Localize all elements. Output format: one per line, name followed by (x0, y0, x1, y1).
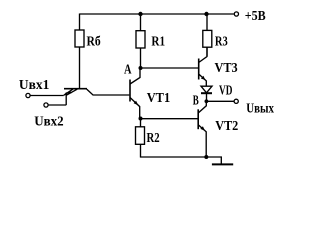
transistor VT0 multi-emitter input (64, 89, 130, 105)
node A (139, 66, 143, 70)
svg-text:R3: R3 (215, 35, 228, 50)
svg-text:VT1: VT1 (147, 91, 171, 106)
wire to VT2 base (141, 118, 198, 120)
terminal +5V (234, 12, 238, 16)
input terminal Uвх2 (44, 103, 48, 107)
wire input2 to emitter (48, 104, 66, 106)
wire node A to VT3 base (141, 67, 199, 69)
svg-text:Uвых: Uвых (246, 102, 274, 117)
svg-text:Uвх2: Uвх2 (34, 114, 63, 129)
resistor Rб (75, 14, 84, 90)
svg-text:+5В: +5В (245, 9, 266, 24)
svg-text:VT3: VT3 (215, 61, 238, 76)
node VT1 emitter / VT2 base / R2 (139, 117, 143, 121)
svg-text:R2: R2 (147, 131, 160, 146)
wire input1 to emitter (30, 95, 64, 97)
junction rail/R3 (204, 12, 208, 16)
resistor R2 (136, 119, 145, 158)
terminal Uвых (234, 99, 238, 103)
diode VD (201, 86, 212, 100)
junction ground node (204, 155, 208, 159)
svg-text:VT2: VT2 (215, 119, 238, 134)
wire +5V top rail (80, 13, 234, 15)
svg-text:B: B (193, 94, 199, 109)
node B (205, 99, 209, 103)
resistor R1 (136, 14, 145, 68)
junction rail/R1 (138, 12, 142, 16)
transistor VT1 (130, 68, 140, 119)
svg-text:Rб: Rб (87, 35, 101, 50)
svg-text:R1: R1 (151, 35, 165, 50)
svg-text:VD: VD (219, 83, 232, 98)
transistor VT2 (198, 101, 206, 157)
transistor VT3 (199, 47, 207, 86)
wire bottom (140, 157, 221, 164)
input terminal Uвх1 (26, 93, 30, 97)
resistor R3 (203, 14, 212, 56)
wire node B to output (206, 100, 234, 102)
svg-text:Uвх1: Uвх1 (19, 78, 49, 93)
svg-text:A: A (124, 62, 132, 77)
ground (212, 163, 233, 165)
